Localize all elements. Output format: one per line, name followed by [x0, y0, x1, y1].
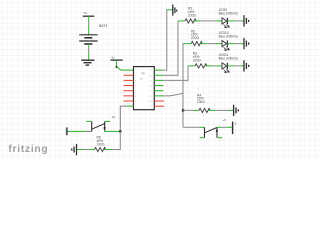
resistor R5	[77, 136, 111, 152]
IC left unconnected pins (red)	[124, 75, 134, 101]
wire 5v to IC pin1	[116, 60, 134, 70]
ground row2	[244, 38, 249, 49]
svg-text:Blue (430nm): Blue (430nm)	[219, 57, 238, 61]
wire row2 drop (pin6 tee)	[164, 93, 184, 95]
svg-text:Blue (430nm): Blue (430nm)	[219, 12, 238, 16]
LED11	[216, 65, 222, 67]
LED row 3	[188, 52, 249, 73]
svg-text:100Ω: 100Ω	[97, 142, 106, 146]
ground row1	[244, 15, 249, 26]
wire	[227, 20, 235, 22]
svg-text:fritzing: fritzing	[8, 144, 48, 155]
ground (R5, facing left)	[72, 144, 77, 155]
wire row3 riser (pin3)	[164, 66, 189, 81]
svg-text:+5: +5	[223, 118, 227, 122]
resistor R2	[191, 42, 202, 46]
power flag (S1 left)	[64, 127, 67, 135]
LED row 2	[183, 29, 249, 50]
resistor R1	[185, 19, 196, 23]
svg-text:220Ω: 220Ω	[188, 13, 197, 17]
battery BAT3	[79, 24, 107, 44]
wire battery top	[88, 16, 90, 34]
svg-text:220Ω: 220Ω	[193, 58, 202, 62]
svg-text:220Ω: 220Ω	[191, 36, 200, 40]
wire	[227, 65, 234, 67]
IC right pin leads (green stubs)	[154, 70, 163, 96]
IC U1 body	[134, 67, 155, 110]
IC pin8 lead	[127, 105, 134, 107]
power 5v flag (IC)	[111, 56, 123, 61]
power +5 flag (S2)	[223, 118, 237, 134]
ground (top-left)	[173, 5, 177, 16]
wire	[213, 65, 216, 67]
IC right unconnected pins (red)	[154, 101, 164, 106]
wire row2 long vertical	[182, 44, 184, 128]
svg-text:mp: mp	[141, 71, 145, 75]
wire row1 riser (pin2)	[164, 21, 179, 75]
switch S2	[183, 127, 232, 137]
ground (R4)	[234, 105, 239, 116]
svg-text:S1: S1	[112, 115, 116, 119]
wire	[188, 65, 195, 67]
LED10	[216, 43, 222, 45]
svg-text:BAT3: BAT3	[99, 24, 107, 28]
wire ground net riser	[164, 10, 168, 70]
wire	[167, 9, 173, 11]
wire	[227, 43, 234, 45]
wire	[183, 43, 191, 45]
resistor R3	[195, 64, 207, 68]
svg-text:10kΩ: 10kΩ	[197, 100, 205, 104]
svg-text:5v: 5v	[84, 11, 88, 15]
wire R5 riser	[112, 131, 121, 149]
power 5v flag (battery top)	[83, 11, 95, 16]
ground row3	[244, 60, 249, 71]
ground (battery)	[81, 60, 94, 65]
resistor R4	[183, 93, 233, 112]
svg-text:IC: IC	[140, 78, 143, 81]
wire	[178, 20, 185, 22]
LED9	[216, 20, 222, 22]
wire	[201, 20, 216, 22]
node junction (S1/R5)	[119, 130, 121, 132]
wire pin8 to switch junction	[120, 106, 126, 131]
node junction (R4 tap)	[182, 109, 184, 111]
LED row 1	[178, 7, 249, 28]
svg-text:Blue (430nm): Blue (430nm)	[219, 34, 238, 38]
switch S1	[68, 115, 121, 132]
wire battery bottom	[88, 44, 90, 60]
wire	[183, 126, 200, 128]
wire	[207, 43, 215, 45]
svg-text:5v: 5v	[112, 56, 116, 60]
